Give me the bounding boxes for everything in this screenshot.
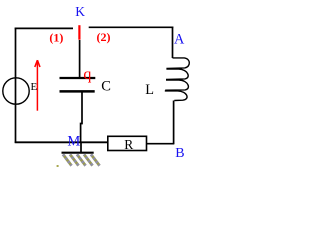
ground hatch (57, 154, 100, 167)
switch K lever (red bar) (78, 25, 80, 40)
svg-text:L: L (145, 82, 154, 98)
svg-text:E: E (31, 81, 38, 93)
svg-text:(1): (1) (49, 31, 63, 45)
svg-text:B: B (175, 146, 184, 161)
capacitor C bottom plate (60, 90, 95, 93)
wire right vertical upper (A to coil) (172, 27, 174, 59)
svg-text:A: A (174, 32, 185, 48)
wire top-right horizontal (89, 26, 174, 28)
svg-text:q: q (83, 66, 91, 83)
emf arrow (red) (35, 60, 40, 110)
wire switch to capacitor vertical (79, 40, 81, 78)
wire coil to B vertical (173, 101, 175, 145)
ground bar (62, 152, 94, 154)
capacitor C top plate (60, 77, 96, 79)
svg-text:(2): (2) (97, 30, 111, 44)
wire top-left horizontal (15, 27, 73, 29)
resistor R box (108, 136, 147, 150)
source circle (3, 78, 29, 104)
wire resistor to B horizontal (147, 143, 175, 145)
svg-text:M: M (67, 134, 80, 150)
svg-text:C: C (101, 79, 111, 95)
svg-text:R: R (124, 137, 133, 152)
wire capacitor to M vertical (with jog) (81, 93, 82, 143)
inductor L coil (165, 58, 190, 101)
wire bottom-left horizontal (15, 141, 108, 143)
wire left vertical (15, 28, 17, 143)
ground stub (80, 142, 82, 153)
svg-text:K: K (75, 4, 85, 19)
